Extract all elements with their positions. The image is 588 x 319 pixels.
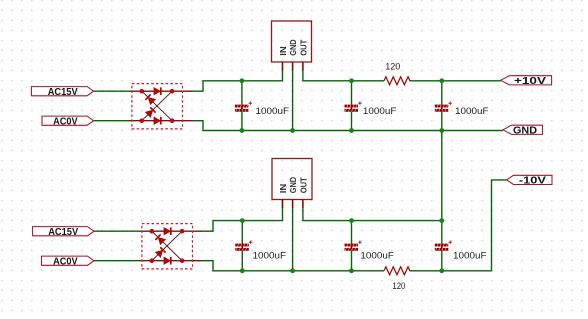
svg-text:120: 120 xyxy=(385,61,400,72)
svg-text:AC15V: AC15V xyxy=(48,227,78,238)
svg-text:AC0V: AC0V xyxy=(53,116,78,127)
svg-text:AC0V: AC0V xyxy=(53,256,78,267)
svg-text:1000uF: 1000uF xyxy=(253,250,287,261)
svg-text:GND: GND xyxy=(289,177,298,193)
svg-text:OUT: OUT xyxy=(299,40,308,56)
svg-text:-10V: -10V xyxy=(519,176,546,187)
svg-text:IN: IN xyxy=(279,46,288,56)
svg-text:GND: GND xyxy=(513,126,537,137)
svg-text:120: 120 xyxy=(392,281,405,292)
svg-text:OUT: OUT xyxy=(299,177,308,193)
svg-text:1000uF: 1000uF xyxy=(363,106,397,117)
svg-text:GND: GND xyxy=(289,39,298,55)
svg-text:IN: IN xyxy=(279,184,288,194)
svg-text:AC15V: AC15V xyxy=(48,87,78,98)
svg-text:1000uF: 1000uF xyxy=(455,106,489,117)
svg-text:1000uF: 1000uF xyxy=(256,106,290,117)
svg-text:+10V: +10V xyxy=(514,76,546,87)
svg-text:1000uF: 1000uF xyxy=(453,250,487,261)
svg-text:1000uF: 1000uF xyxy=(360,250,394,261)
